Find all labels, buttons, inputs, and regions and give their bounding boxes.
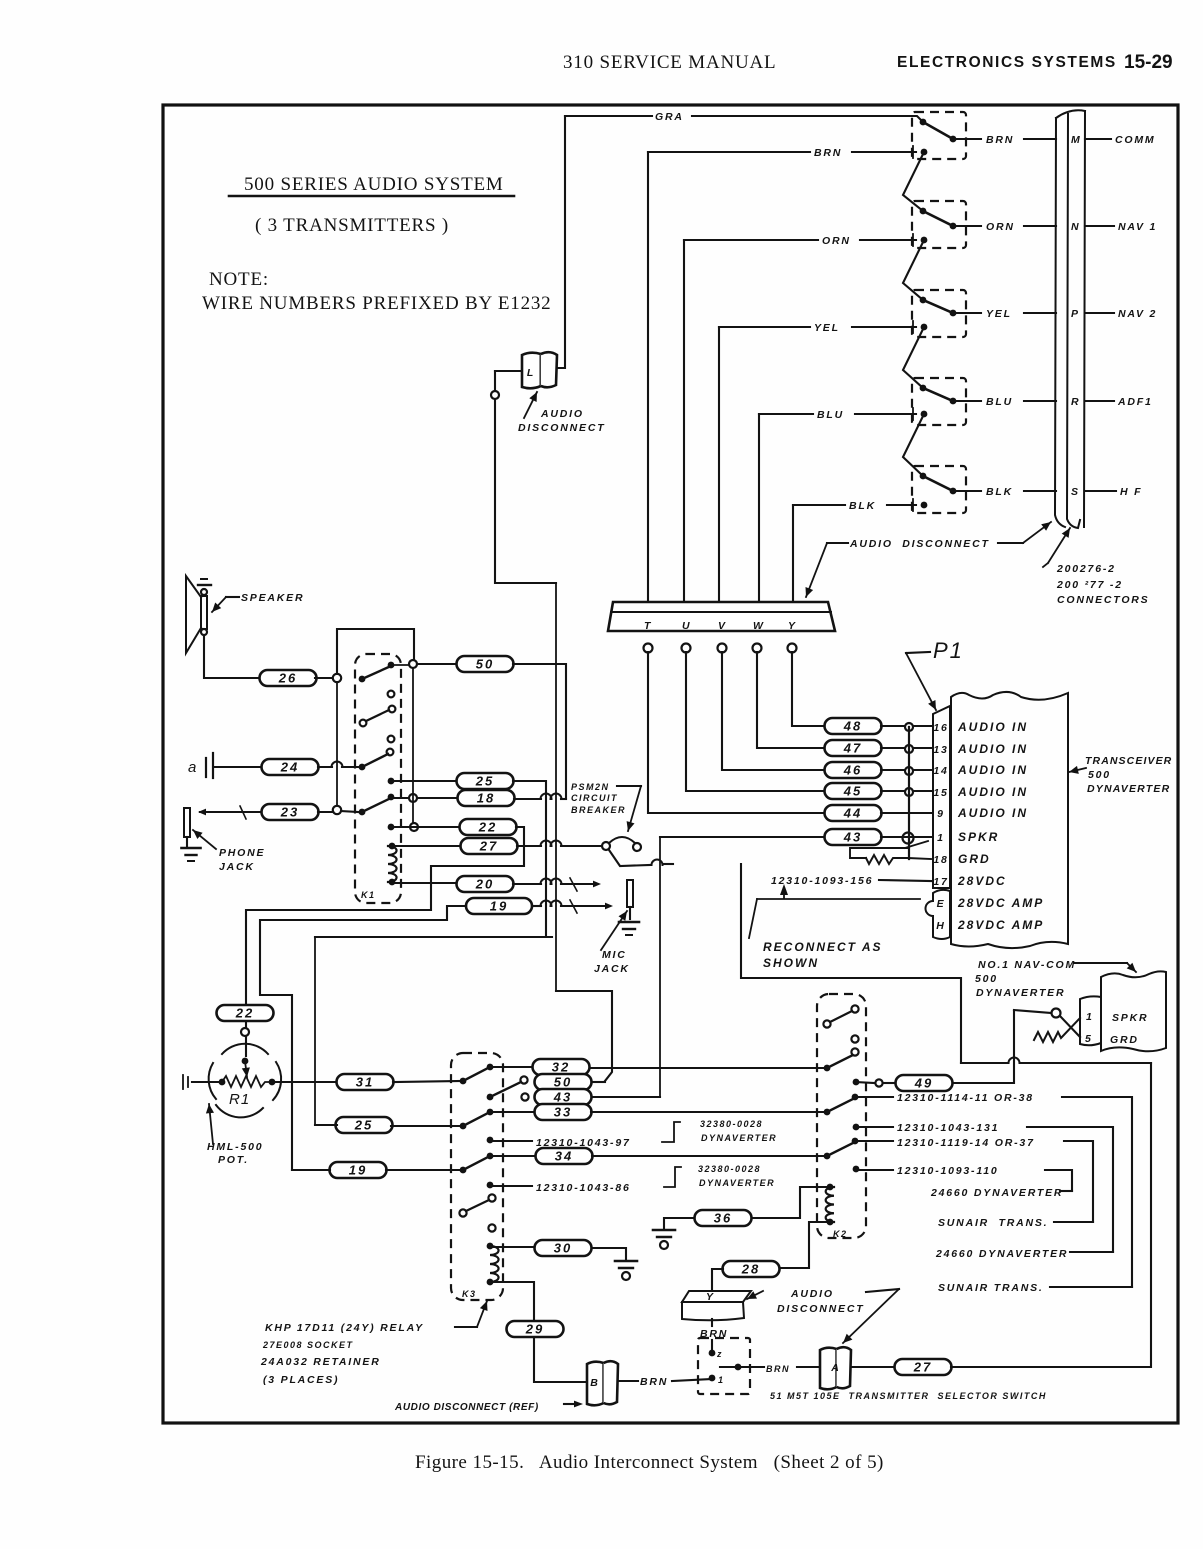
R1 right terminal xyxy=(269,1079,276,1086)
svg-text:12310-1043-131: 12310-1043-131 xyxy=(897,1122,999,1134)
R1 resistor element xyxy=(222,1076,270,1087)
svg-text:12310-1093-156: 12310-1093-156 xyxy=(771,875,873,887)
speaker leader xyxy=(226,596,239,598)
junction SPKR ring xyxy=(903,833,914,844)
wire BLU feed vertical to disconnect pin xyxy=(758,414,760,602)
svg-text:DYNAVERTER: DYNAVERTER xyxy=(1087,783,1170,795)
svg-text:(3 PLACES): (3 PLACES) xyxy=(263,1374,339,1386)
K2 contact 1114 xyxy=(852,1094,859,1101)
svg-text:AUDIO DISCONNECT: AUDIO DISCONNECT xyxy=(849,538,990,550)
wire 22 top xyxy=(391,826,460,828)
S3 moving contact xyxy=(950,310,957,317)
K2 arm 33 xyxy=(827,1098,855,1112)
svg-text:46: 46 xyxy=(843,763,862,778)
wire bar P to radio xyxy=(1085,312,1114,314)
svg-text:POT.: POT. xyxy=(218,1154,249,1166)
open end tick 2 xyxy=(187,1077,189,1087)
wire S4 output xyxy=(953,400,981,402)
wire number 43 xyxy=(825,829,882,845)
phone jack leader xyxy=(193,830,216,849)
K2 arm 34 xyxy=(827,1142,855,1156)
svg-text:ORN: ORN xyxy=(986,221,1015,233)
open end tick 1 xyxy=(182,1075,184,1089)
S4 lower contact tick xyxy=(912,408,914,420)
svg-text:AUDIO IN: AUDIO IN xyxy=(957,806,1028,820)
wire number 24 xyxy=(262,759,319,775)
svg-text:YEL: YEL xyxy=(986,308,1012,320)
S1 lower contact xyxy=(921,149,928,156)
wire 24 past bus xyxy=(342,766,362,768)
wire 50 bottom right xyxy=(593,1081,605,1083)
svg-text:15-29: 15-29 xyxy=(1124,52,1173,73)
S3 lower contact tick xyxy=(912,321,914,333)
wire number 28 xyxy=(723,1261,780,1277)
terminal 1 xyxy=(709,1375,716,1382)
svg-text:47: 47 xyxy=(843,741,862,756)
svg-text:BRN: BRN xyxy=(640,1376,668,1388)
wire number 43 (K3) xyxy=(535,1089,592,1105)
svg-text:SPKR: SPKR xyxy=(958,830,999,844)
svg-text:( 3 TRANSMITTERS ): ( 3 TRANSMITTERS ) xyxy=(255,215,449,236)
wire number 26 xyxy=(260,670,317,686)
svg-text:CONNECTORS: CONNECTORS xyxy=(1057,594,1149,606)
leader to Y brick xyxy=(747,1291,763,1299)
svg-text:JACK: JACK xyxy=(594,963,630,975)
REF arrowhead xyxy=(574,1401,583,1408)
svg-text:K3: K3 xyxy=(462,1289,477,1299)
K1 contact 24 xyxy=(359,764,366,771)
wire 45 to P1 xyxy=(881,790,931,792)
wire number 19 (K1) xyxy=(466,898,532,914)
svg-text:KHP 17D11 (24Y) RELAY: KHP 17D11 (24Y) RELAY xyxy=(265,1322,424,1334)
wire 50 from K1 xyxy=(417,663,457,665)
navcom leader xyxy=(1074,962,1127,964)
svg-text:BLK: BLK xyxy=(849,500,876,512)
S4 lower contact xyxy=(921,411,928,418)
svg-text:36: 36 xyxy=(714,1211,732,1226)
wire number 33 xyxy=(535,1104,592,1120)
wire BLK feed vertical to disconnect pin xyxy=(792,505,794,602)
svg-text:ORN: ORN xyxy=(822,235,851,247)
S5 pivot xyxy=(920,473,927,480)
S5 arm xyxy=(923,476,953,491)
svg-text:25: 25 xyxy=(354,1118,373,1133)
feed 25 bottom xyxy=(314,937,316,1125)
speaker leader arrow xyxy=(212,597,226,612)
K2 arm a xyxy=(830,1011,852,1022)
connector B (audio disconnect) xyxy=(587,1361,618,1405)
P1 leader xyxy=(906,652,930,653)
navcom leader arrow xyxy=(1127,963,1136,972)
ground at 30 xyxy=(615,1261,637,1280)
wire number 45 xyxy=(825,783,882,799)
wire pin drop to 48 xyxy=(792,652,825,726)
wire 31 to K3 xyxy=(393,1081,463,1082)
K3 contact 86 xyxy=(487,1182,494,1189)
wire 110 bracket xyxy=(1045,1170,1072,1191)
K1 staple wire xyxy=(337,629,414,674)
svg-text:500: 500 xyxy=(1088,769,1111,781)
relay K2 coil xyxy=(826,1187,834,1222)
wire number 46 xyxy=(825,762,882,778)
ground at 36 xyxy=(653,1230,675,1249)
svg-text:ADF1: ADF1 xyxy=(1117,396,1153,408)
audio disconnect bar (T-Y) xyxy=(608,602,835,631)
reconnect to pin 5 xyxy=(1060,1016,1080,1037)
reconnect X top xyxy=(1014,1010,1051,1013)
svg-text:HML-500: HML-500 xyxy=(207,1141,263,1153)
S1 pivot xyxy=(920,119,927,126)
wire 34 to K2 xyxy=(592,1155,823,1157)
navcom unit box xyxy=(1101,971,1166,1051)
jack bar 1 xyxy=(205,758,207,777)
wire number 25 (K1) xyxy=(457,773,514,789)
svg-text:200 ²77 -2: 200 ²77 -2 xyxy=(1056,579,1123,591)
svg-text:V: V xyxy=(718,620,727,632)
wire 48 to P1 xyxy=(881,725,931,727)
feed 25 corner xyxy=(315,936,552,938)
svg-text:SPEAKER: SPEAKER xyxy=(241,592,304,604)
wire BRN to terminal 1 xyxy=(672,1379,712,1381)
wire 49 to oval xyxy=(883,1082,895,1084)
svg-text:JACK: JACK xyxy=(219,861,255,873)
K1 contact 22 xyxy=(388,824,395,831)
wire ORN feed vertical to disconnect pin xyxy=(683,240,685,602)
mic jack ground lead xyxy=(629,907,631,919)
relay K2 dashed enclosure xyxy=(817,994,866,1238)
wire 43 bottom right xyxy=(593,1096,660,1098)
S5 moving contact xyxy=(950,488,957,495)
K1 contact 23 xyxy=(359,809,366,816)
K2 hinge 33 xyxy=(824,1109,831,1116)
mic jack ground xyxy=(619,922,639,935)
terminal Z xyxy=(709,1350,716,1357)
terminal mid xyxy=(735,1364,742,1371)
leader to A brick xyxy=(843,1289,899,1343)
phone jack symbol xyxy=(184,808,190,837)
wire 19 hops xyxy=(541,901,562,906)
wire 27 to oval xyxy=(663,863,673,865)
relay K3 coil xyxy=(490,1246,499,1282)
P1 junction bus xyxy=(908,727,910,859)
svg-text:15: 15 xyxy=(933,787,948,799)
breaker leader arrow xyxy=(627,786,641,831)
wire 33 row xyxy=(490,1111,536,1113)
K3 open contact f xyxy=(488,1224,495,1231)
wire 1093-110 row xyxy=(856,1169,893,1171)
S4 arm xyxy=(923,388,953,401)
leader reconnect xyxy=(749,899,757,938)
wire ORN feed into S2 lower contact xyxy=(860,239,916,241)
junction ring 18 xyxy=(409,794,417,802)
svg-text:34: 34 xyxy=(555,1149,573,1164)
bracket sunair-1 xyxy=(1054,1221,1093,1223)
svg-text:ELECTRONICS SYSTEMS: ELECTRONICS SYSTEMS xyxy=(897,54,1117,71)
svg-text:BRN: BRN xyxy=(986,134,1014,146)
svg-text:28VDC: 28VDC xyxy=(957,874,1007,888)
wire 27 to breaker xyxy=(561,845,602,847)
wire 20 run xyxy=(513,883,541,885)
svg-text:1: 1 xyxy=(718,1375,725,1385)
wire 20 end xyxy=(561,883,592,885)
trunk y1063 b xyxy=(1020,1062,1151,1064)
K3 hinge 31 xyxy=(460,1078,467,1085)
breaker terminal left xyxy=(602,842,610,850)
svg-text:50: 50 xyxy=(476,657,494,672)
wire 27 run xyxy=(517,845,541,847)
K2 contact 32 target xyxy=(851,1048,858,1055)
K3 arm e xyxy=(466,1200,489,1211)
svg-text:YEL: YEL xyxy=(814,322,840,334)
wire S3 output xyxy=(953,312,981,314)
svg-text:BLK: BLK xyxy=(986,486,1013,498)
break mark on 23 xyxy=(240,806,246,819)
svg-text:45: 45 xyxy=(843,784,862,799)
wire 19 bottom to K3 xyxy=(386,1169,463,1171)
K2 contact 131 xyxy=(853,1124,860,1131)
svg-text:SPKR: SPKR xyxy=(1112,1012,1148,1024)
wire BRN from B xyxy=(618,1380,638,1382)
K3 arm 25-33 xyxy=(463,1112,490,1126)
svg-text:SHOWN: SHOWN xyxy=(763,956,819,970)
S1 arm xyxy=(923,122,953,139)
connector bar J (radio side) xyxy=(1055,110,1085,528)
wire GRA to switch S1 pivot xyxy=(692,116,923,122)
wire 34 row xyxy=(490,1155,536,1157)
wire 1043-86 row xyxy=(490,1185,532,1187)
svg-text:25: 25 xyxy=(475,774,494,789)
wire 19 end xyxy=(561,905,604,907)
svg-text:AUDIO IN: AUDIO IN xyxy=(957,742,1028,756)
K3 open contact e1 xyxy=(488,1194,495,1201)
svg-text:27: 27 xyxy=(479,839,498,854)
svg-text:5: 5 xyxy=(1085,1033,1093,1045)
wire 23 from jack xyxy=(200,811,262,813)
bar pin W circle xyxy=(753,644,762,653)
K3 ring 43 xyxy=(521,1093,528,1100)
leader wire from label xyxy=(998,542,1023,544)
terminal block dashed box xyxy=(698,1338,750,1394)
K3 arm 31-32 xyxy=(463,1067,490,1081)
P1 E-H flap xyxy=(926,890,950,939)
figure border frame xyxy=(163,105,1178,1423)
svg-text:43: 43 xyxy=(553,1090,572,1105)
wire 28 left to Y xyxy=(712,1269,723,1290)
wire 32 row xyxy=(490,1066,532,1068)
wire 25 bottom to K3 xyxy=(391,1125,463,1127)
svg-text:43: 43 xyxy=(843,830,862,845)
reconnect ring xyxy=(1052,1009,1061,1018)
switch S5 dashed enclosure xyxy=(912,466,966,513)
phone jack ground lead xyxy=(186,837,188,846)
svg-text:GRD: GRD xyxy=(958,852,991,866)
wire 19 arrowhead xyxy=(605,903,613,910)
junction ring P1 column y=727 xyxy=(905,723,913,731)
svg-text:COMM: COMM xyxy=(1115,134,1155,146)
wire 23 into K1 xyxy=(341,811,358,812)
K1 contact 25 xyxy=(388,778,395,785)
shield bar and resistor to GRD xyxy=(850,841,931,864)
wire S1 output xyxy=(953,138,981,140)
K3 contact 34 xyxy=(487,1153,494,1160)
K2 contact a xyxy=(851,1005,858,1012)
break mark on 20 xyxy=(570,878,577,891)
svg-text:50: 50 xyxy=(554,1075,572,1090)
splice ring on L drop xyxy=(491,391,499,399)
svg-text:30: 30 xyxy=(554,1241,572,1256)
svg-text:NO.1 NAV-COM: NO.1 NAV-COM xyxy=(978,959,1076,971)
wire 1114-11 row xyxy=(855,1096,893,1098)
svg-text:GRD: GRD xyxy=(1110,1034,1139,1046)
switch S3 dashed enclosure xyxy=(912,290,966,337)
wire 22 drop to oval xyxy=(245,1005,247,1056)
K3 coil bottom terminal xyxy=(487,1279,494,1286)
svg-text:S: S xyxy=(1071,486,1080,498)
wire YEL feed into S3 lower contact xyxy=(852,326,916,328)
svg-text:NOTE:: NOTE: xyxy=(209,269,269,290)
trunk hop over 49 riser xyxy=(1009,1058,1020,1064)
R1 wiper xyxy=(242,1061,250,1077)
R1 left terminal xyxy=(219,1079,226,1086)
svg-text:13: 13 xyxy=(933,744,948,756)
wire 29 route xyxy=(490,1282,534,1323)
svg-text:H F: H F xyxy=(1120,486,1142,498)
wire 18 top xyxy=(391,797,457,799)
svg-text:18: 18 xyxy=(933,854,948,866)
svg-text:L: L xyxy=(527,367,535,379)
svg-text:DISCONNECT: DISCONNECT xyxy=(777,1303,864,1315)
svg-text:1: 1 xyxy=(937,832,945,844)
trunk 27 top xyxy=(741,864,961,1063)
jack bar 2 xyxy=(212,753,214,778)
svg-text:AUDIO IN: AUDIO IN xyxy=(957,763,1028,777)
K1 arm b xyxy=(366,710,389,721)
wire bar N to radio xyxy=(1085,225,1114,227)
S2 pivot xyxy=(920,208,927,215)
svg-text:12310-1114-11 OR-38: 12310-1114-11 OR-38 xyxy=(897,1092,1034,1104)
phone jack ground xyxy=(182,848,201,861)
wire 50 run xyxy=(513,664,566,799)
wire bar M to radio xyxy=(1085,138,1111,140)
junction ring 26 xyxy=(333,674,341,682)
K2 coil bottom terminal xyxy=(827,1219,834,1226)
junction ring P1 column y=792 xyxy=(905,788,913,796)
S3 arm xyxy=(923,300,953,313)
K2 contact 1119 xyxy=(852,1138,859,1145)
S3 pivot xyxy=(920,297,927,304)
break mark on 19 xyxy=(570,900,577,913)
leader to L connector xyxy=(524,392,537,418)
svg-text:12310-1043-86: 12310-1043-86 xyxy=(536,1182,631,1194)
K2 hinge 34 xyxy=(824,1153,831,1160)
wire GRA vertical from L connector xyxy=(557,116,565,368)
svg-text:PSM2N: PSM2N xyxy=(571,782,610,792)
svg-text:SUNAIR TRANS.: SUNAIR TRANS. xyxy=(938,1282,1044,1294)
K3 contact 43 xyxy=(487,1094,494,1101)
svg-text:28VDC AMP: 28VDC AMP xyxy=(957,918,1044,932)
wire 131 bracket xyxy=(1027,1127,1113,1252)
svg-text:K2: K2 xyxy=(833,1229,848,1239)
svg-text:P: P xyxy=(1071,308,1080,320)
svg-text:E: E xyxy=(937,898,946,910)
K3 contact 33 xyxy=(487,1109,494,1116)
wire 1114-11 bracket xyxy=(1062,1097,1132,1287)
wire BRN to A xyxy=(738,1366,764,1368)
wire 20 hops xyxy=(541,879,562,884)
wire 26 to K1 xyxy=(315,677,333,679)
K1 contact b2 xyxy=(389,706,396,713)
wire number 20 xyxy=(457,876,514,892)
svg-text:DISCONNECT: DISCONNECT xyxy=(518,422,605,434)
wire number 22 (K1) xyxy=(460,819,517,835)
svg-text:19: 19 xyxy=(490,899,508,914)
wire from connector L xyxy=(495,370,521,372)
S1 lower contact tick xyxy=(912,146,914,158)
K3 arm 43-50 xyxy=(490,1082,521,1097)
wire BLU feed horizontal xyxy=(759,413,813,415)
K2 contact 49 xyxy=(853,1079,860,1086)
wire 44 to P1 xyxy=(881,812,931,814)
svg-text:z: z xyxy=(716,1349,723,1359)
S4 pivot xyxy=(920,385,927,392)
wire 28 right to K2 coil xyxy=(780,1222,826,1268)
K3 hinge 19 xyxy=(460,1167,467,1174)
K3 ring 50 xyxy=(520,1076,527,1083)
wire 27 hops xyxy=(541,841,562,846)
junction ring 49 xyxy=(875,1079,882,1086)
speaker ground bar xyxy=(198,584,211,586)
junction ring 23 xyxy=(333,806,341,814)
wire 1119-14 row xyxy=(855,1140,893,1142)
K1 coil bottom terminal xyxy=(389,879,396,886)
svg-text:GRA: GRA xyxy=(655,111,684,123)
svg-text:T: T xyxy=(644,620,652,632)
svg-text:Y: Y xyxy=(706,1291,715,1303)
K1 contact c2 xyxy=(387,749,394,756)
junction ring P1 column y=749 xyxy=(905,745,913,753)
bar pin T circle xyxy=(644,644,653,653)
svg-text:B: B xyxy=(590,1377,599,1389)
S2 lower contact tick xyxy=(912,234,914,246)
bus 50-22 xyxy=(412,668,414,823)
svg-text:22: 22 xyxy=(235,1006,254,1021)
svg-text:1: 1 xyxy=(1086,1011,1094,1023)
wire 18 end xyxy=(561,798,566,800)
wire S3 to S4 chain xyxy=(903,327,924,388)
wire 19 left route xyxy=(260,906,466,1170)
leader wire from label left xyxy=(827,542,848,544)
svg-text:BREAKER: BREAKER xyxy=(571,805,626,815)
svg-text:WIRE NUMBERS PREFIXED BY E1232: WIRE NUMBERS PREFIXED BY E1232 xyxy=(202,293,551,314)
wire 25 top xyxy=(391,780,457,782)
svg-text:32380-0028: 32380-0028 xyxy=(698,1164,761,1174)
S2 arm xyxy=(923,211,953,226)
svg-text:M: M xyxy=(1071,134,1082,146)
wire 24 to K1 xyxy=(318,766,332,768)
svg-text:32380-0028: 32380-0028 xyxy=(700,1119,763,1129)
svg-text:16: 16 xyxy=(933,722,948,734)
svg-text:23: 23 xyxy=(280,805,299,820)
connector Y (audio disconnect bar) xyxy=(682,1291,751,1320)
K1 coil top terminal xyxy=(389,843,396,850)
wire BRN feed vertical to disconnect pin xyxy=(647,152,649,602)
mic jack leader xyxy=(601,911,627,950)
wire L drop xyxy=(495,371,556,583)
audio bus drop V1 xyxy=(555,583,557,991)
wire 49 to reconnect X xyxy=(953,1010,1014,1083)
svg-text:24A032 RETAINER: 24A032 RETAINER xyxy=(260,1356,381,1368)
wire YEL feed horizontal xyxy=(719,326,810,328)
